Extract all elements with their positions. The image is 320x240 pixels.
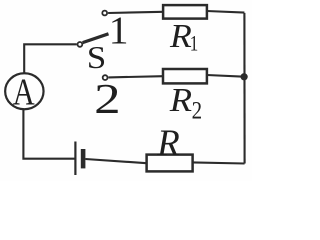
resistor R2	[163, 69, 207, 83]
switch lever	[83, 34, 109, 43]
label R2	[169, 82, 202, 124]
battery	[75, 142, 85, 176]
svg-text:R: R	[169, 82, 193, 119]
switch contact 2	[103, 75, 108, 80]
svg-text:S: S	[87, 40, 107, 75]
wire: contact 1 to resistor R1	[108, 12, 163, 13]
switch contact 1	[102, 11, 107, 16]
resistor R	[147, 155, 193, 172]
svg-text:2: 2	[94, 77, 121, 123]
wire: resistor R1 to top-right corner	[207, 11, 245, 13]
wire: resistor R2 to junction	[207, 75, 244, 77]
svg-text:1: 1	[190, 31, 199, 56]
label R1	[169, 18, 198, 56]
svg-text:A: A	[13, 71, 35, 113]
junction node	[240, 73, 247, 80]
resistor R1	[163, 5, 207, 19]
svg-text:R: R	[156, 123, 180, 164]
ammeter A	[5, 71, 43, 113]
wire: top-left horizontal from corner to switch pivot	[24, 44, 77, 73]
wire: resistor R to bottom-right corner	[193, 162, 245, 163]
svg-text:2: 2	[192, 95, 203, 124]
wire: contact 2 to resistor R2	[109, 76, 164, 77]
wire: left vertical from ammeter to bottom-left corner, then to battery	[23, 110, 74, 159]
wire: battery to resistor R	[85, 159, 146, 163]
wire: right vertical	[243, 13, 245, 164]
svg-text:1: 1	[109, 8, 129, 52]
switch pivot	[78, 42, 83, 47]
svg-text:R: R	[169, 18, 192, 55]
